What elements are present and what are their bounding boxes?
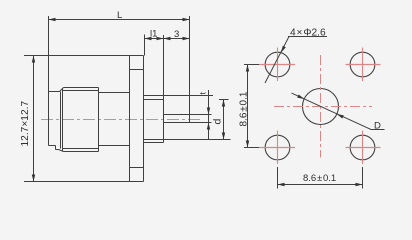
contact pin: [164, 16, 212, 123]
center circle crosshair: [274, 55, 372, 158]
arrow 3 left: [164, 37, 171, 40]
crosshair top-right hole: [346, 48, 381, 82]
dimension 8.6 vertical: [244, 65, 260, 148]
right view hole bottom-left: [265, 135, 290, 160]
body between nut and flange: [99, 93, 130, 146]
svg-text:D: D: [374, 121, 381, 132]
shoulder and insulator behind flange: [144, 35, 231, 143]
centerline left view: [41, 119, 202, 121]
svg-text:4 × Φ2.6: 4 × Φ2.6: [290, 28, 326, 39]
right view hole top-right: [350, 52, 375, 77]
arrow hole callout: [281, 46, 286, 53]
arrow D upper-left: [297, 95, 304, 100]
svg-text:d: d: [212, 119, 224, 125]
arrow d up: [222, 100, 225, 107]
dimension 12.7x12.7: [24, 56, 144, 182]
arrow 8.6 vertical top: [246, 65, 249, 72]
leader for D: [292, 93, 385, 129]
right view hole bottom-right: [350, 135, 375, 160]
dimension L: [49, 19, 190, 21]
arrow 3 right: [183, 37, 190, 40]
dimension 8.6 horizontal: [278, 167, 363, 189]
svg-text:8.6 ± 0.1: 8.6 ± 0.1: [303, 173, 336, 184]
svg-text:l1: l1: [150, 29, 157, 40]
arrow 8.6 horizontal right: [356, 183, 363, 186]
arrow L right: [183, 18, 190, 21]
svg-text:12.7×12.7: 12.7×12.7: [20, 101, 31, 147]
arrow L left: [49, 18, 56, 21]
arrow 8.6 horizontal left: [278, 183, 285, 186]
arrow 12.7 top: [32, 56, 35, 63]
hex nut: [59, 88, 99, 152]
arrow D lower-right: [337, 114, 344, 119]
leader for hole callout: [265, 37, 327, 84]
dimension t line: [208, 90, 210, 140]
svg-text:L: L: [117, 10, 122, 21]
connector front cap: [49, 16, 60, 150]
crosshair bottom-left hole: [260, 131, 295, 165]
center circle D: [303, 89, 339, 125]
arrow l1 right: [157, 37, 164, 40]
arrow d down: [222, 133, 225, 140]
flange side view: [130, 56, 144, 182]
right view hole top-left: [265, 52, 290, 77]
crosshair bottom-right hole: [346, 131, 381, 165]
arrow 8.6 vertical bottom: [246, 141, 249, 148]
dimension d line: [219, 100, 229, 140]
crosshair top-left hole: [260, 48, 295, 82]
arrow t down: [207, 108, 210, 115]
arrow 12.7 bottom: [32, 175, 35, 182]
dimension line l1 and 3: [145, 35, 190, 56]
arrow l1 left: [145, 37, 152, 40]
svg-text:3: 3: [174, 29, 179, 40]
arrow t up: [207, 123, 210, 130]
svg-text:8.6 ± 0.1: 8.6 ± 0.1: [239, 91, 250, 126]
